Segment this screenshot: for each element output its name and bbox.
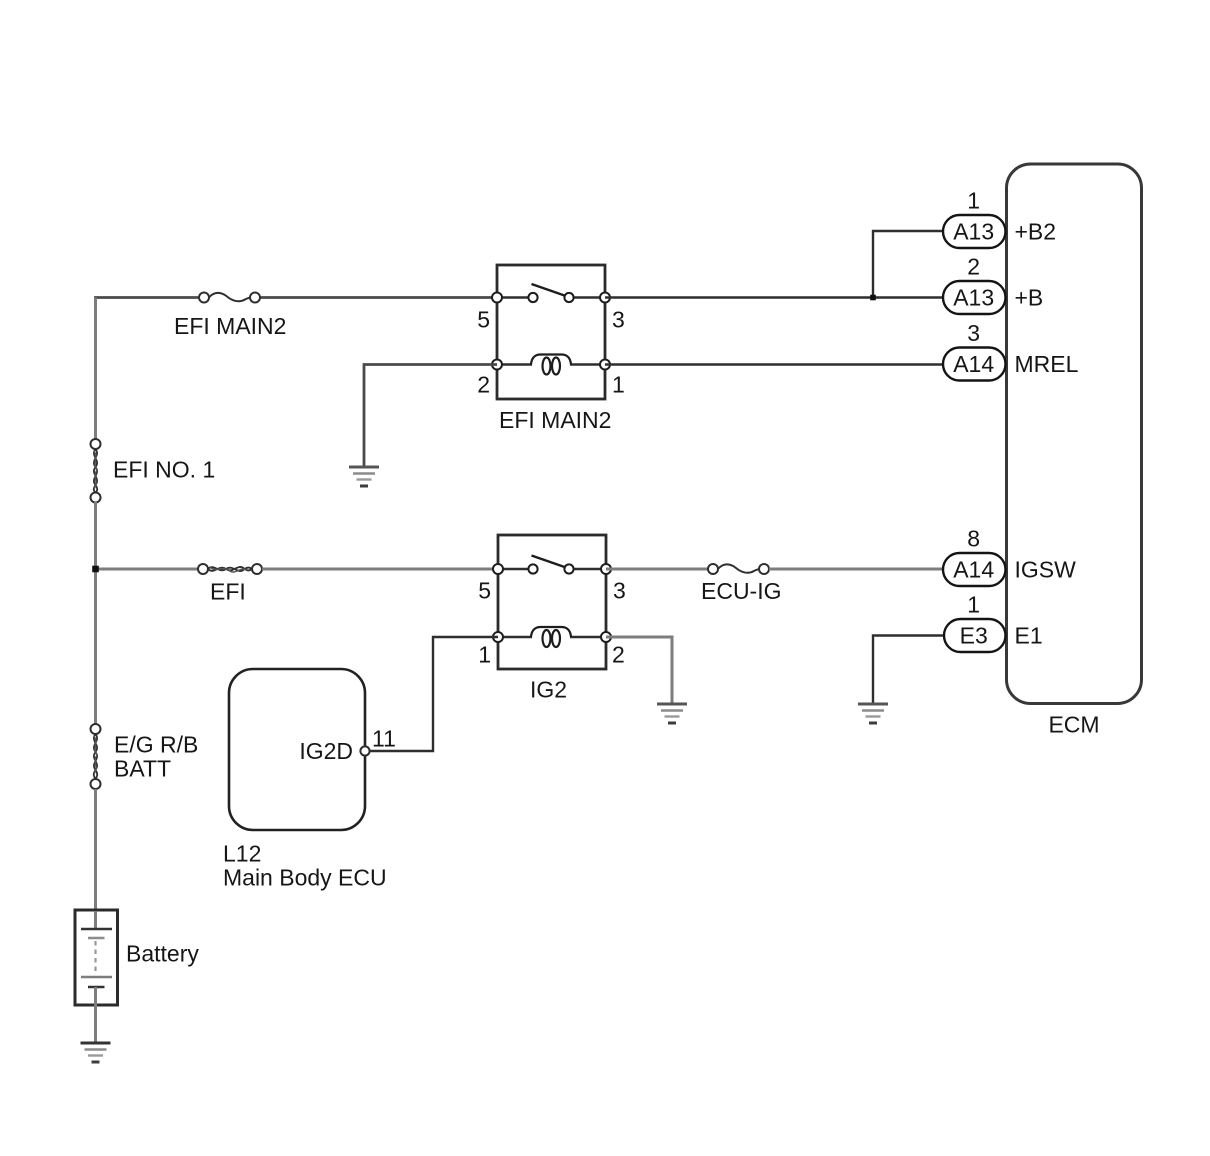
svg-text:1: 1 (612, 372, 625, 398)
svg-text:E3: E3 (960, 623, 988, 649)
svg-text:1: 1 (478, 642, 491, 668)
wire relay EFI MAIN2 pin 3 to ECM +B with junction branch (605, 296, 943, 298)
svg-text:EFI: EFI (210, 579, 246, 605)
ground below IG2 pin 2 (657, 704, 687, 723)
svg-text:A14: A14 (953, 351, 994, 377)
connector pin A13 +B (943, 254, 1043, 315)
svg-text:11: 11 (372, 726, 396, 752)
svg-text:IGSW: IGSW (1015, 557, 1077, 583)
svg-text:BATT: BATT (114, 756, 171, 782)
wire ECU-IG fuse to ECM IGSW (769, 568, 943, 571)
switch contacts relay EFI MAIN2 (528, 293, 573, 302)
svg-text:5: 5 (478, 578, 491, 604)
svg-text:3: 3 (612, 307, 625, 333)
wire top row fuse to relay pin 5 (260, 296, 497, 299)
wire left trunk lower segment to battery (94, 789, 97, 929)
svg-text:3: 3 (613, 578, 626, 604)
svg-text:EFI NO. 1: EFI NO. 1 (113, 457, 215, 483)
svg-text:2: 2 (612, 642, 625, 668)
wire EFI fuse to IG2 relay pin 5 (262, 568, 498, 571)
ECM box (1007, 164, 1142, 738)
svg-text:+B: +B (1015, 285, 1044, 311)
pin IG2D / 11 on Main Body ECU (299, 726, 396, 765)
switch blade relay EFI MAIN2 (532, 284, 565, 296)
switch blade relay IG2 (532, 556, 565, 568)
relay IG2 (498, 535, 606, 703)
svg-text:1: 1 (967, 188, 980, 214)
battery (75, 910, 199, 1042)
svg-text:MREL: MREL (1015, 351, 1079, 377)
wire branch up to +B2 (873, 231, 943, 298)
svg-text:E/G R/B: E/G R/B (114, 732, 198, 758)
svg-text:A13: A13 (953, 285, 994, 311)
coil relay IG2 (498, 627, 606, 647)
wire left trunk upper segment (94, 298, 97, 441)
connector pin E3 E1 (944, 592, 1043, 653)
relay EFI MAIN2 pin numbers (477, 307, 625, 398)
fuse ECU-IG (701, 564, 782, 604)
junction node on +B wire (870, 295, 876, 301)
wire top row from battery trunk corner to EFI MAIN2 fuse (96, 298, 199, 441)
connector pin A14 IGSW (943, 526, 1076, 587)
svg-text:+B2: +B2 (1015, 219, 1057, 245)
wire relay EFI MAIN2 pin 1 to ECM MREL (605, 363, 943, 365)
wire EFI row from junction to EFI fuse (96, 568, 199, 571)
svg-text:Battery: Battery (126, 941, 199, 967)
svg-text:Main Body ECU: Main Body ECU (223, 865, 387, 891)
svg-text:2: 2 (477, 372, 490, 398)
svg-text:A14: A14 (953, 557, 994, 583)
Main Body ECU box L12 (223, 669, 387, 891)
svg-text:IG2: IG2 (530, 677, 567, 703)
wire ECM E1 to ground (873, 636, 943, 704)
switch contacts relay IG2 (528, 564, 573, 573)
fuse EFI (198, 564, 262, 605)
ground below battery (81, 1043, 111, 1062)
coil relay EFI MAIN2 (497, 355, 605, 375)
relay IG2 pin numbers (478, 578, 626, 668)
wire relay IG2 pin 3 to ECU-IG fuse (606, 568, 709, 571)
svg-text:ECU-IG: ECU-IG (701, 578, 782, 604)
connector pin A13 +B2 (943, 188, 1056, 249)
svg-text:1: 1 (967, 592, 980, 618)
svg-text:E1: E1 (1015, 623, 1043, 649)
ground below E1 (858, 704, 888, 723)
svg-text:3: 3 (967, 320, 980, 346)
wire left trunk middle segment (94, 502, 97, 725)
svg-text:2: 2 (967, 254, 980, 280)
relay IG2 pin circles (493, 564, 611, 642)
wire relay EFI MAIN2 switch stubs (497, 296, 605, 299)
fuse EFI NO. 1 (fusible link) (91, 439, 216, 503)
svg-text:A13: A13 (953, 219, 994, 245)
svg-text:8: 8 (967, 526, 980, 552)
relay EFI MAIN2 pin circles (492, 293, 610, 370)
wire relay EFI MAIN2 pin 2 to ground (364, 365, 497, 467)
wire relay IG2 switch stubs (498, 568, 606, 571)
svg-text:IG2D: IG2D (299, 738, 353, 764)
fuse E/G R/B BATT (fusible link) (91, 724, 199, 789)
fuse EFI MAIN2 (174, 293, 286, 340)
relay EFI MAIN2 (497, 265, 611, 433)
svg-text:L12: L12 (223, 841, 261, 867)
connector pin A14 MREL (943, 320, 1079, 381)
ground below EFI MAIN2 coil (349, 467, 379, 486)
svg-text:EFI MAIN2: EFI MAIN2 (499, 407, 611, 433)
svg-text:ECM: ECM (1048, 712, 1099, 738)
wire relay IG2 pin 2 to ground (606, 637, 672, 703)
svg-text:5: 5 (477, 307, 490, 333)
svg-text:EFI MAIN2: EFI MAIN2 (174, 313, 286, 339)
junction node at trunk and EFI row (92, 566, 99, 573)
wire IG2D pin 11 to relay IG2 pin 1 (369, 637, 498, 751)
